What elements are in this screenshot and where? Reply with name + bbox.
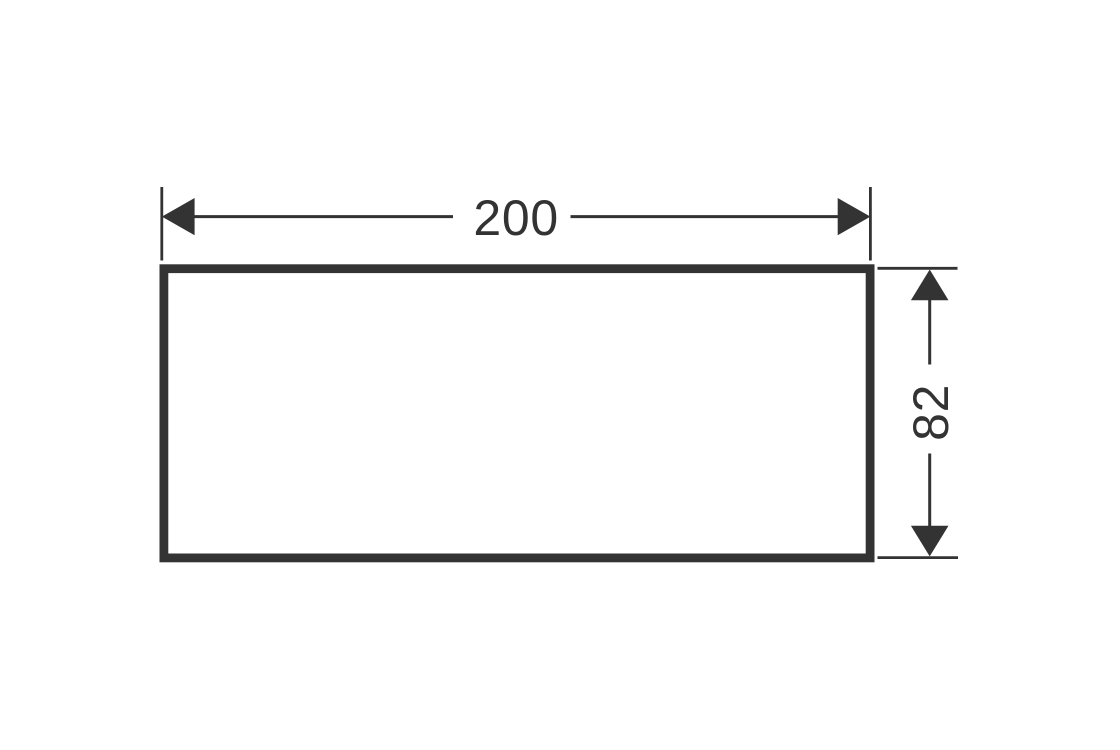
dimension line 200 right segment [571, 215, 841, 218]
dimension line 200 left segment [194, 215, 453, 218]
arrowhead left (width dim) [162, 198, 195, 235]
arrowhead down (height dim) [911, 526, 949, 557]
extension line left (width dim) [160, 187, 163, 261]
dimension line 82 lower segment [928, 454, 931, 528]
rectangle outline (product body 200x82) [164, 269, 870, 558]
extension line bottom (height dim) [878, 556, 959, 559]
arrowhead up (height dim) [911, 270, 949, 301]
arrowhead right (width dim) [838, 198, 871, 235]
dimension line 82 upper segment [928, 299, 931, 365]
svg-text:82: 82 [903, 384, 959, 441]
svg-text:200: 200 [473, 190, 559, 246]
extension line right (width dim) [869, 187, 872, 261]
extension line top (height dim) [878, 267, 958, 270]
